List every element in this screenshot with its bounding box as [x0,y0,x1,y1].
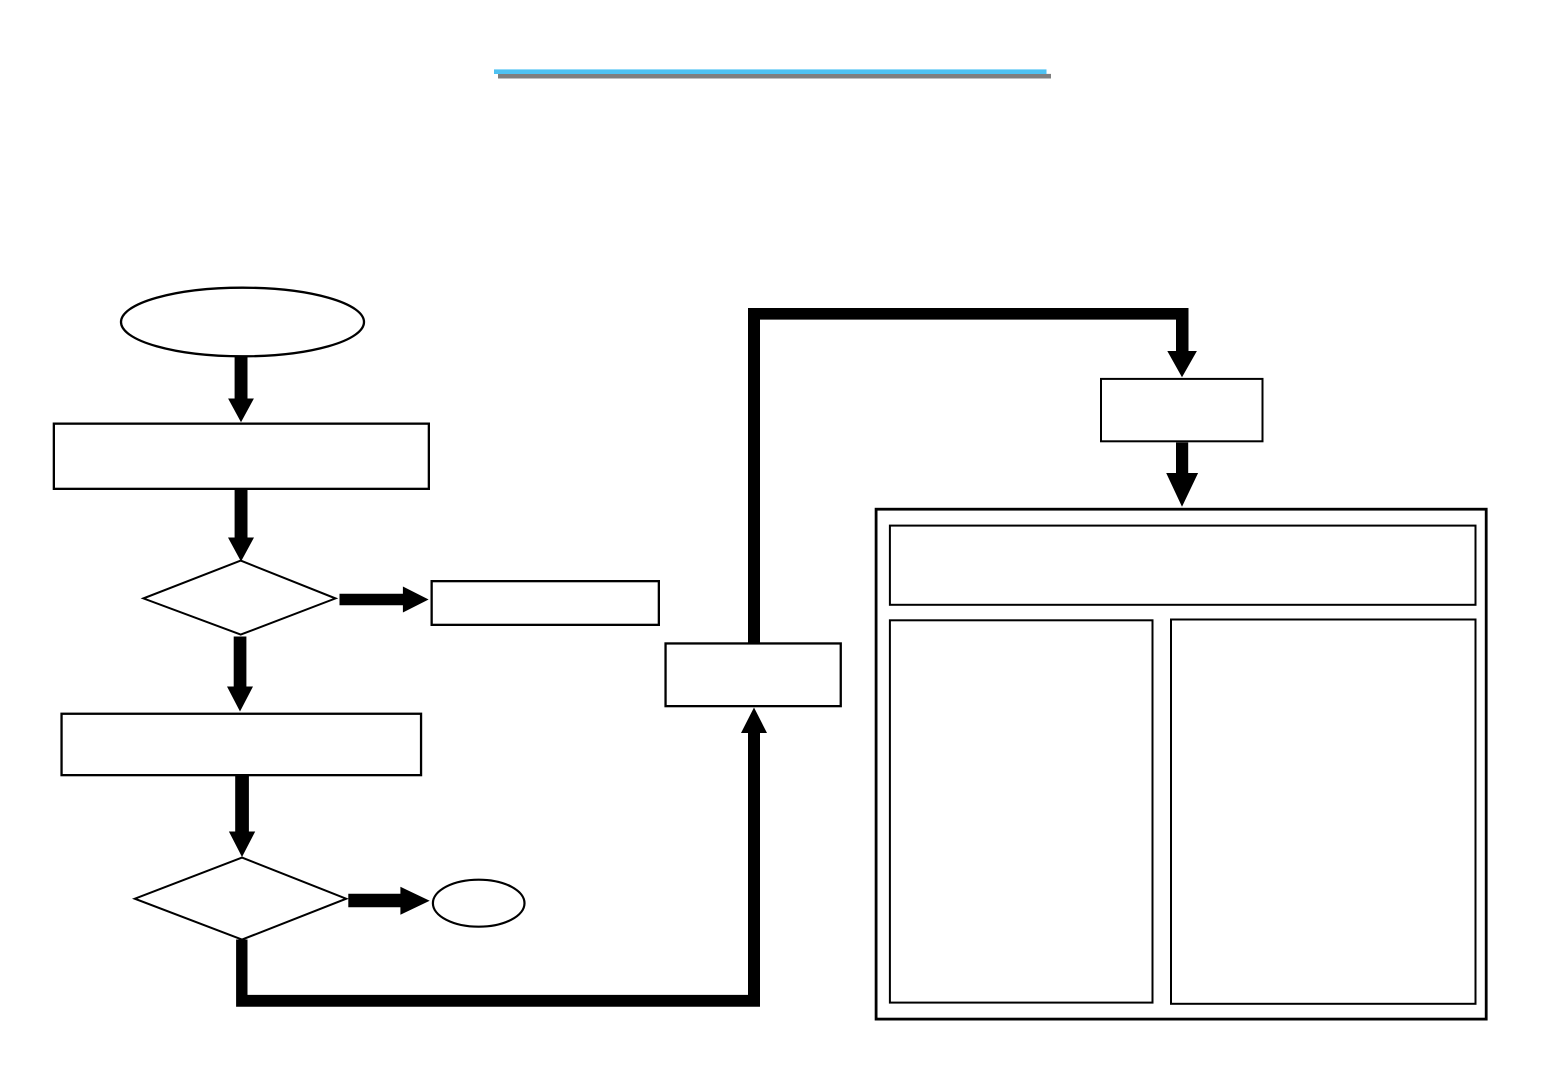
table header cell [890,526,1476,605]
arrow decision 1 to process 2 [227,637,253,712]
decision diamond 2 [135,858,346,940]
table outer frame [876,509,1486,1019]
title underline shadow [498,74,1051,79]
end ellipse [433,880,525,927]
report box [1101,379,1263,441]
side box [432,581,659,625]
process box 1 [54,424,429,489]
table left cell [890,620,1153,1002]
title underline [494,69,1047,74]
loop box [666,643,841,706]
start ellipse [121,288,364,357]
arrow start to process 1 [228,356,254,423]
process box 2 [62,714,422,775]
arrow decision 1 to side box [340,587,429,613]
loop connector top [748,308,1197,643]
arrow process 1 to decision 1 [228,489,254,562]
arrow report box to table [1166,443,1198,507]
table right cell [1171,620,1476,1004]
loop connector bottom [236,708,767,1007]
arrow process 2 to decision 2 [229,776,255,857]
arrow decision 2 to end ellipse [348,887,429,915]
decision diamond 1 [143,561,335,635]
